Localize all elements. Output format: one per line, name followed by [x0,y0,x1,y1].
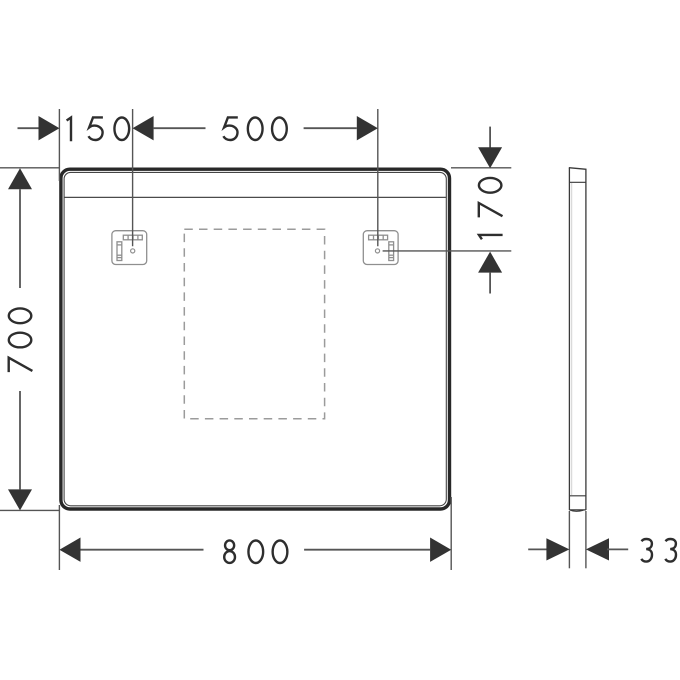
extension line bracket 1 center [132,109,134,246]
bracket 2 horizontal bar [369,235,388,240]
bracket 2 outline [363,231,398,265]
extension line mirror bottom left [0,509,59,511]
dim 800 right arrow [430,538,451,562]
bracket 1 mounting hole [131,249,135,253]
dim 800 text [224,540,287,563]
bracket 1 vertical bar [117,242,122,261]
dim 700 bottom arrow [8,489,32,510]
dim 500 line right segment [304,127,357,129]
dim 33 right arrow [586,538,609,560]
extension line left edge (150 dim) [58,109,60,181]
dim 150 left arrow [39,116,60,140]
dim 170 tail top [489,127,491,148]
dim 150 tail line [18,127,39,129]
dim 800 left arrow [59,538,80,562]
extension line side right (33 dim) [585,511,587,568]
dim 800 line right segment [304,549,430,551]
side view top slanted edge [569,168,587,170]
bracket 1 outline [112,231,147,265]
dim 33 text [641,539,676,562]
side view bottom curve [569,510,583,511]
dim 170 bottom arrow [478,252,502,273]
dim 33 left arrow [546,538,569,560]
side view top cap line [569,181,586,183]
extension line bracket 2 center [377,109,379,246]
bracket 2 mounting hole [375,249,379,253]
dim 700 top arrow [8,168,32,189]
side view bottom edge [569,509,586,511]
dim 150 text [67,117,130,141]
extension line mirror top right (170 dim) [451,167,511,169]
mirror outer outline [61,169,450,509]
bracket 2 vertical bar [389,242,394,261]
side view bottom cap line [569,495,586,497]
dim 33 right tail [607,548,628,550]
dim 500 right arrow [357,116,378,140]
dim 33 left tail [528,548,548,550]
dim 500 text [223,117,286,140]
heating pad dashed rectangle [184,229,324,418]
dim 500 line left segment [154,127,206,129]
dim 800 line left segment [81,549,204,551]
dim 170 text [479,178,503,239]
mirror inner outline [64,172,446,505]
extension line side left (33 dim) [568,511,570,568]
extension line mirror right (800 dim) [450,497,452,570]
mirror interior top line [64,196,446,198]
extension line mirror left (800 dim) [58,505,60,570]
bracket 1 horizontal bar [123,235,142,240]
extension line mirror top left [0,167,59,169]
side view right edge [585,169,587,510]
dim 700 line upper segment [19,189,21,288]
side view inner faint line [571,183,573,495]
side view left edge [568,168,570,510]
dim 500 left arrow [133,116,154,140]
dim 170 tail bottom [489,273,491,294]
dim 700 text [9,308,33,372]
extension line bracket hole right (170 dim) [383,250,512,252]
dim 700 line lower segment [19,391,21,489]
dim 170 top arrow [478,147,502,168]
